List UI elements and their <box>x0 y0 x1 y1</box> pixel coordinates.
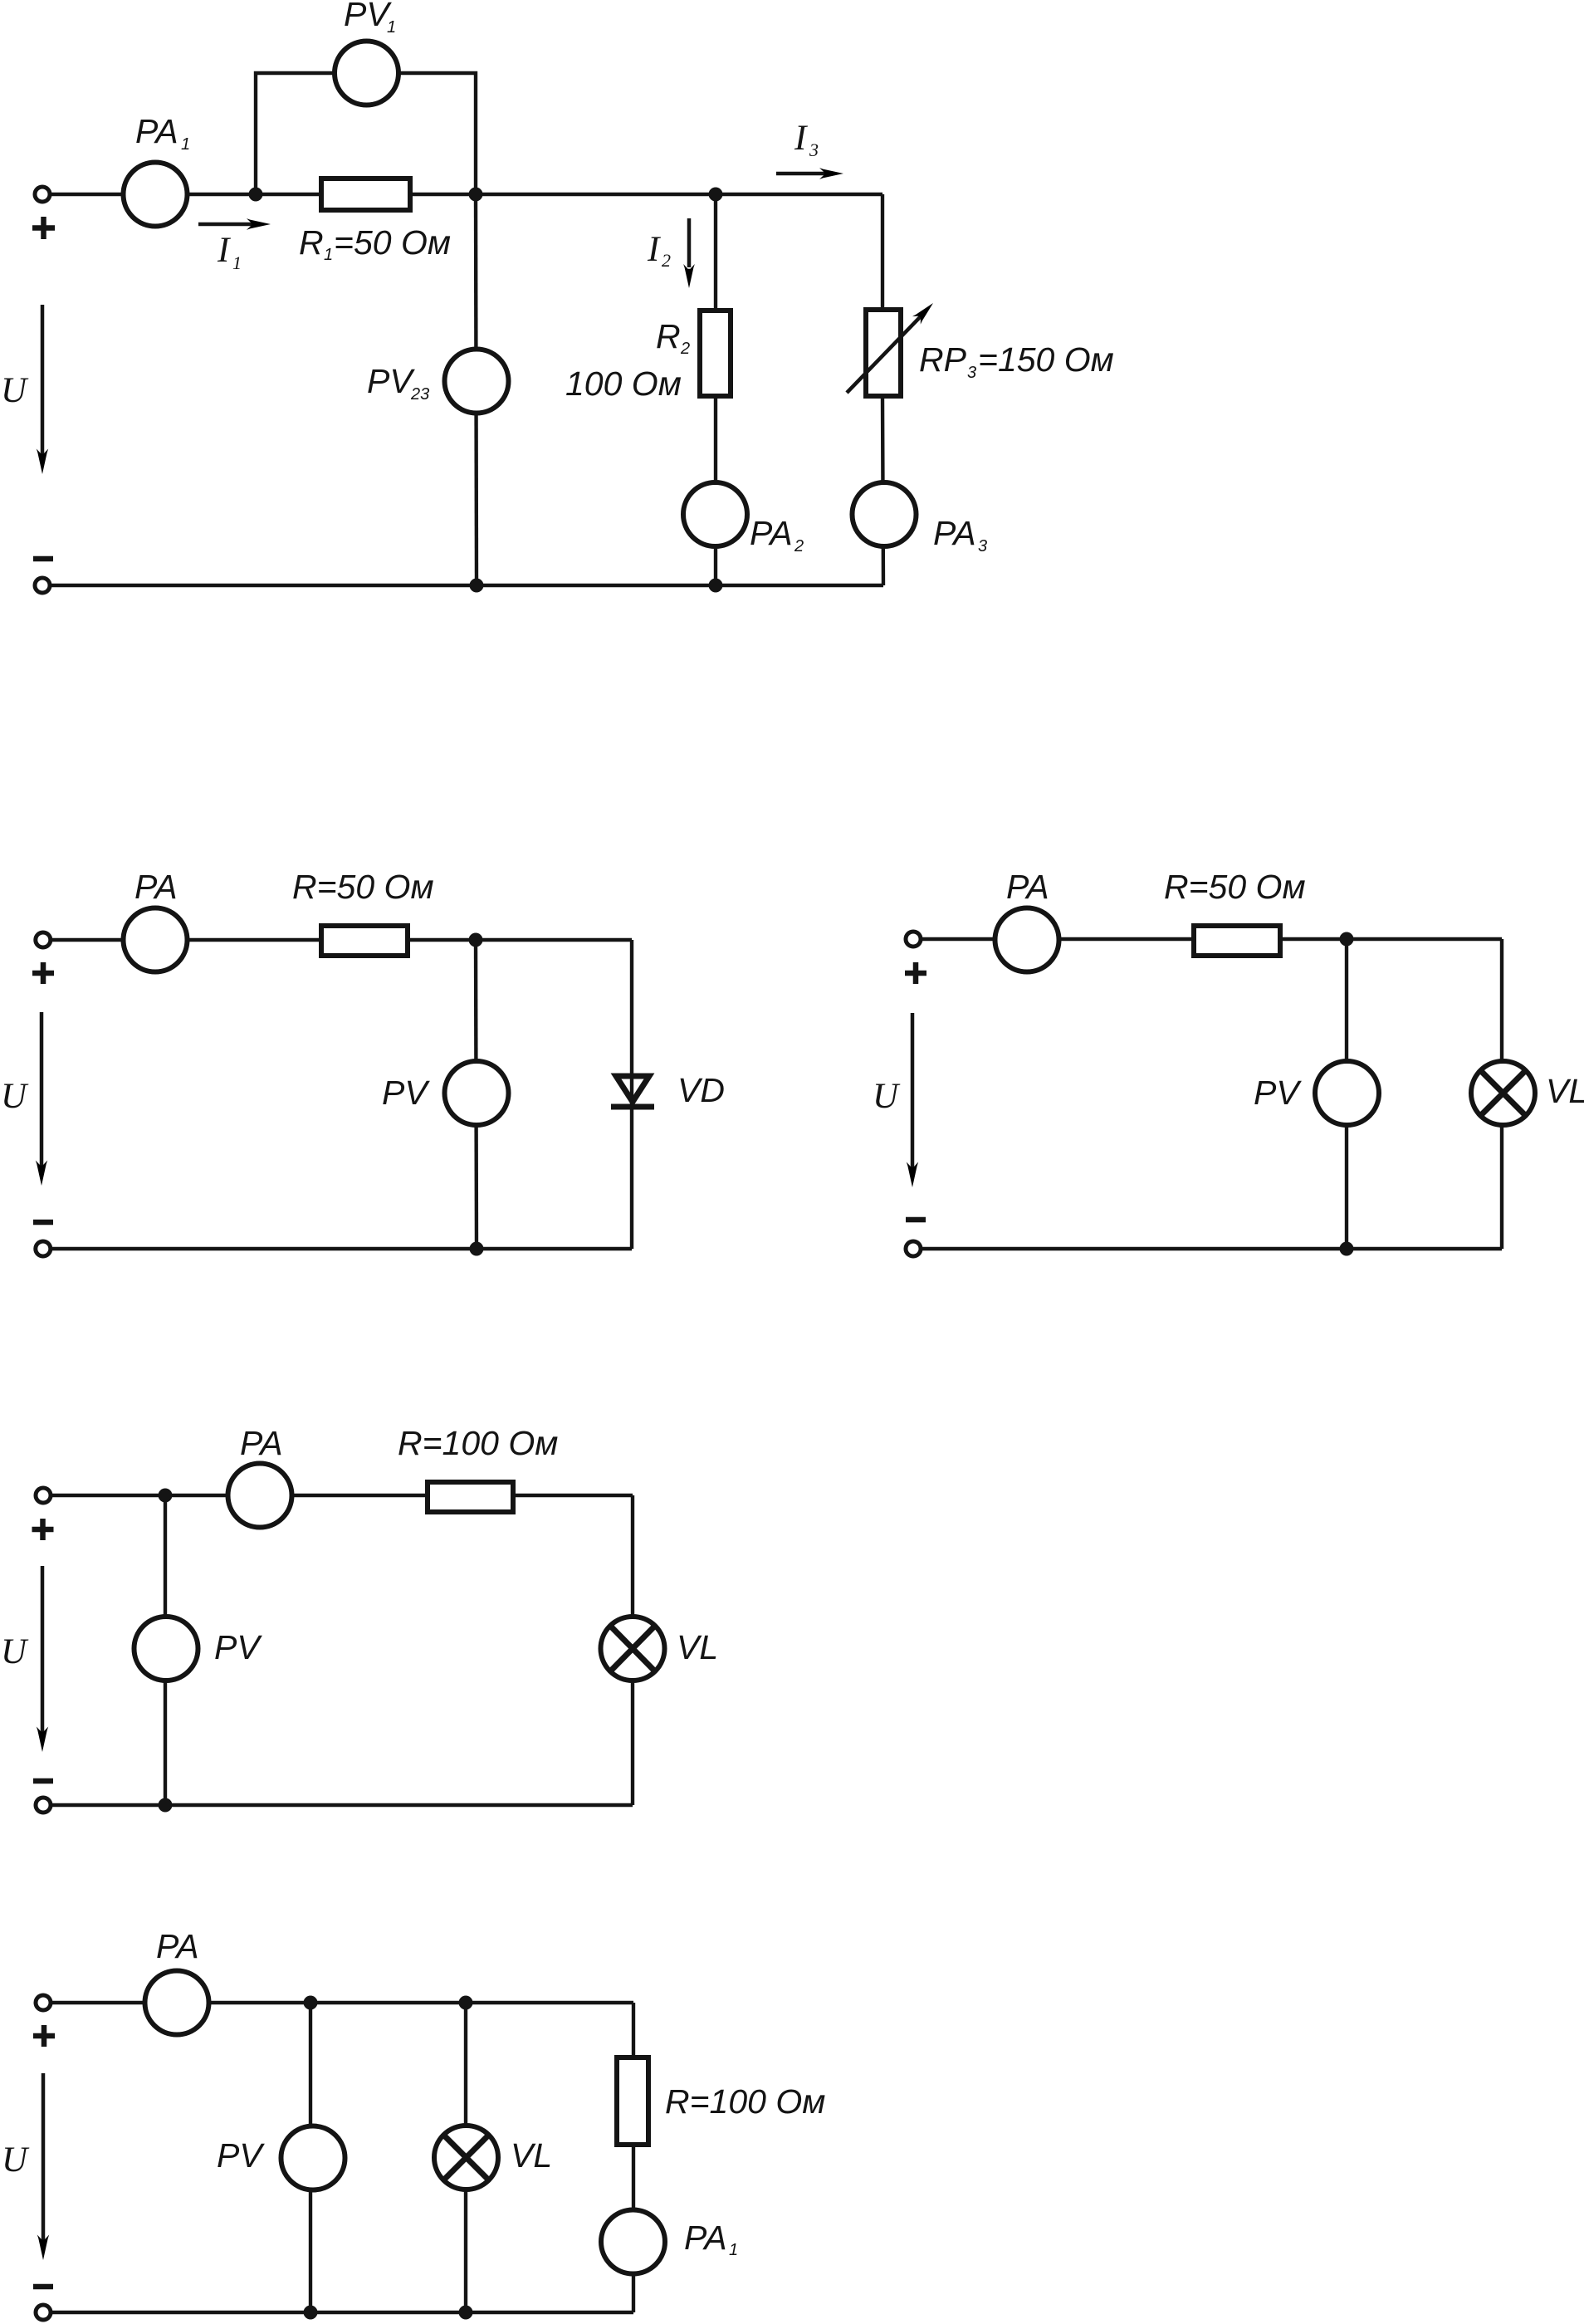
svg-text:2: 2 <box>662 250 671 271</box>
svg-text:3: 3 <box>809 139 819 160</box>
svg-text:R: R <box>656 317 681 355</box>
svg-text:1: 1 <box>387 18 396 37</box>
svg-text:R=100 Ом: R=100 Ом <box>398 1424 558 1462</box>
svg-text:PA: PA <box>134 868 178 906</box>
svg-text:3: 3 <box>967 364 976 382</box>
svg-text:PV: PV <box>214 1628 262 1666</box>
svg-text:PV: PV <box>367 362 415 400</box>
svg-text:PA: PA <box>750 514 793 552</box>
svg-text:=150 Ом: =150 Ом <box>978 340 1114 379</box>
svg-text:PA: PA <box>684 2219 727 2257</box>
svg-text:VL: VL <box>677 1628 718 1666</box>
svg-text:PV: PV <box>344 0 392 33</box>
svg-text:U: U <box>2 2141 30 2180</box>
svg-text:1: 1 <box>181 135 190 154</box>
svg-text:U: U <box>1 1632 29 1671</box>
svg-text:=50 Ом: =50 Ом <box>334 223 451 262</box>
svg-text:VL: VL <box>1546 1072 1584 1110</box>
svg-text:1: 1 <box>232 252 242 273</box>
svg-text:RP: RP <box>919 340 967 379</box>
svg-text:I: I <box>217 231 231 270</box>
svg-text:R: R <box>299 223 324 262</box>
svg-text:U: U <box>873 1077 901 1116</box>
svg-text:VL: VL <box>511 2136 552 2175</box>
svg-text:R=50 Ом: R=50 Ом <box>292 868 434 906</box>
svg-text:U: U <box>1 371 29 410</box>
svg-text:2: 2 <box>794 537 804 555</box>
svg-text:2: 2 <box>680 340 690 358</box>
svg-text:PA: PA <box>933 514 976 552</box>
svg-text:VD: VD <box>677 1071 725 1109</box>
svg-text:PA: PA <box>135 112 178 150</box>
svg-text:R=50 Ом: R=50 Ом <box>1164 868 1306 906</box>
svg-text:3: 3 <box>978 537 987 555</box>
svg-text:U: U <box>1 1077 29 1116</box>
svg-text:1: 1 <box>324 246 333 264</box>
svg-text:PA: PA <box>1006 868 1049 906</box>
svg-text:I: I <box>794 119 808 158</box>
svg-text:PV: PV <box>382 1074 430 1112</box>
svg-text:100 Ом: 100 Ом <box>565 365 682 403</box>
svg-text:PV: PV <box>217 2136 265 2175</box>
svg-text:23: 23 <box>410 385 429 404</box>
svg-text:1: 1 <box>729 2241 738 2259</box>
svg-text:PA: PA <box>156 1927 199 1965</box>
svg-text:R=100 Ом: R=100 Ом <box>665 2082 825 2121</box>
svg-text:PV: PV <box>1254 1074 1302 1112</box>
svg-text:PA: PA <box>240 1424 283 1462</box>
svg-text:I: I <box>647 230 661 269</box>
